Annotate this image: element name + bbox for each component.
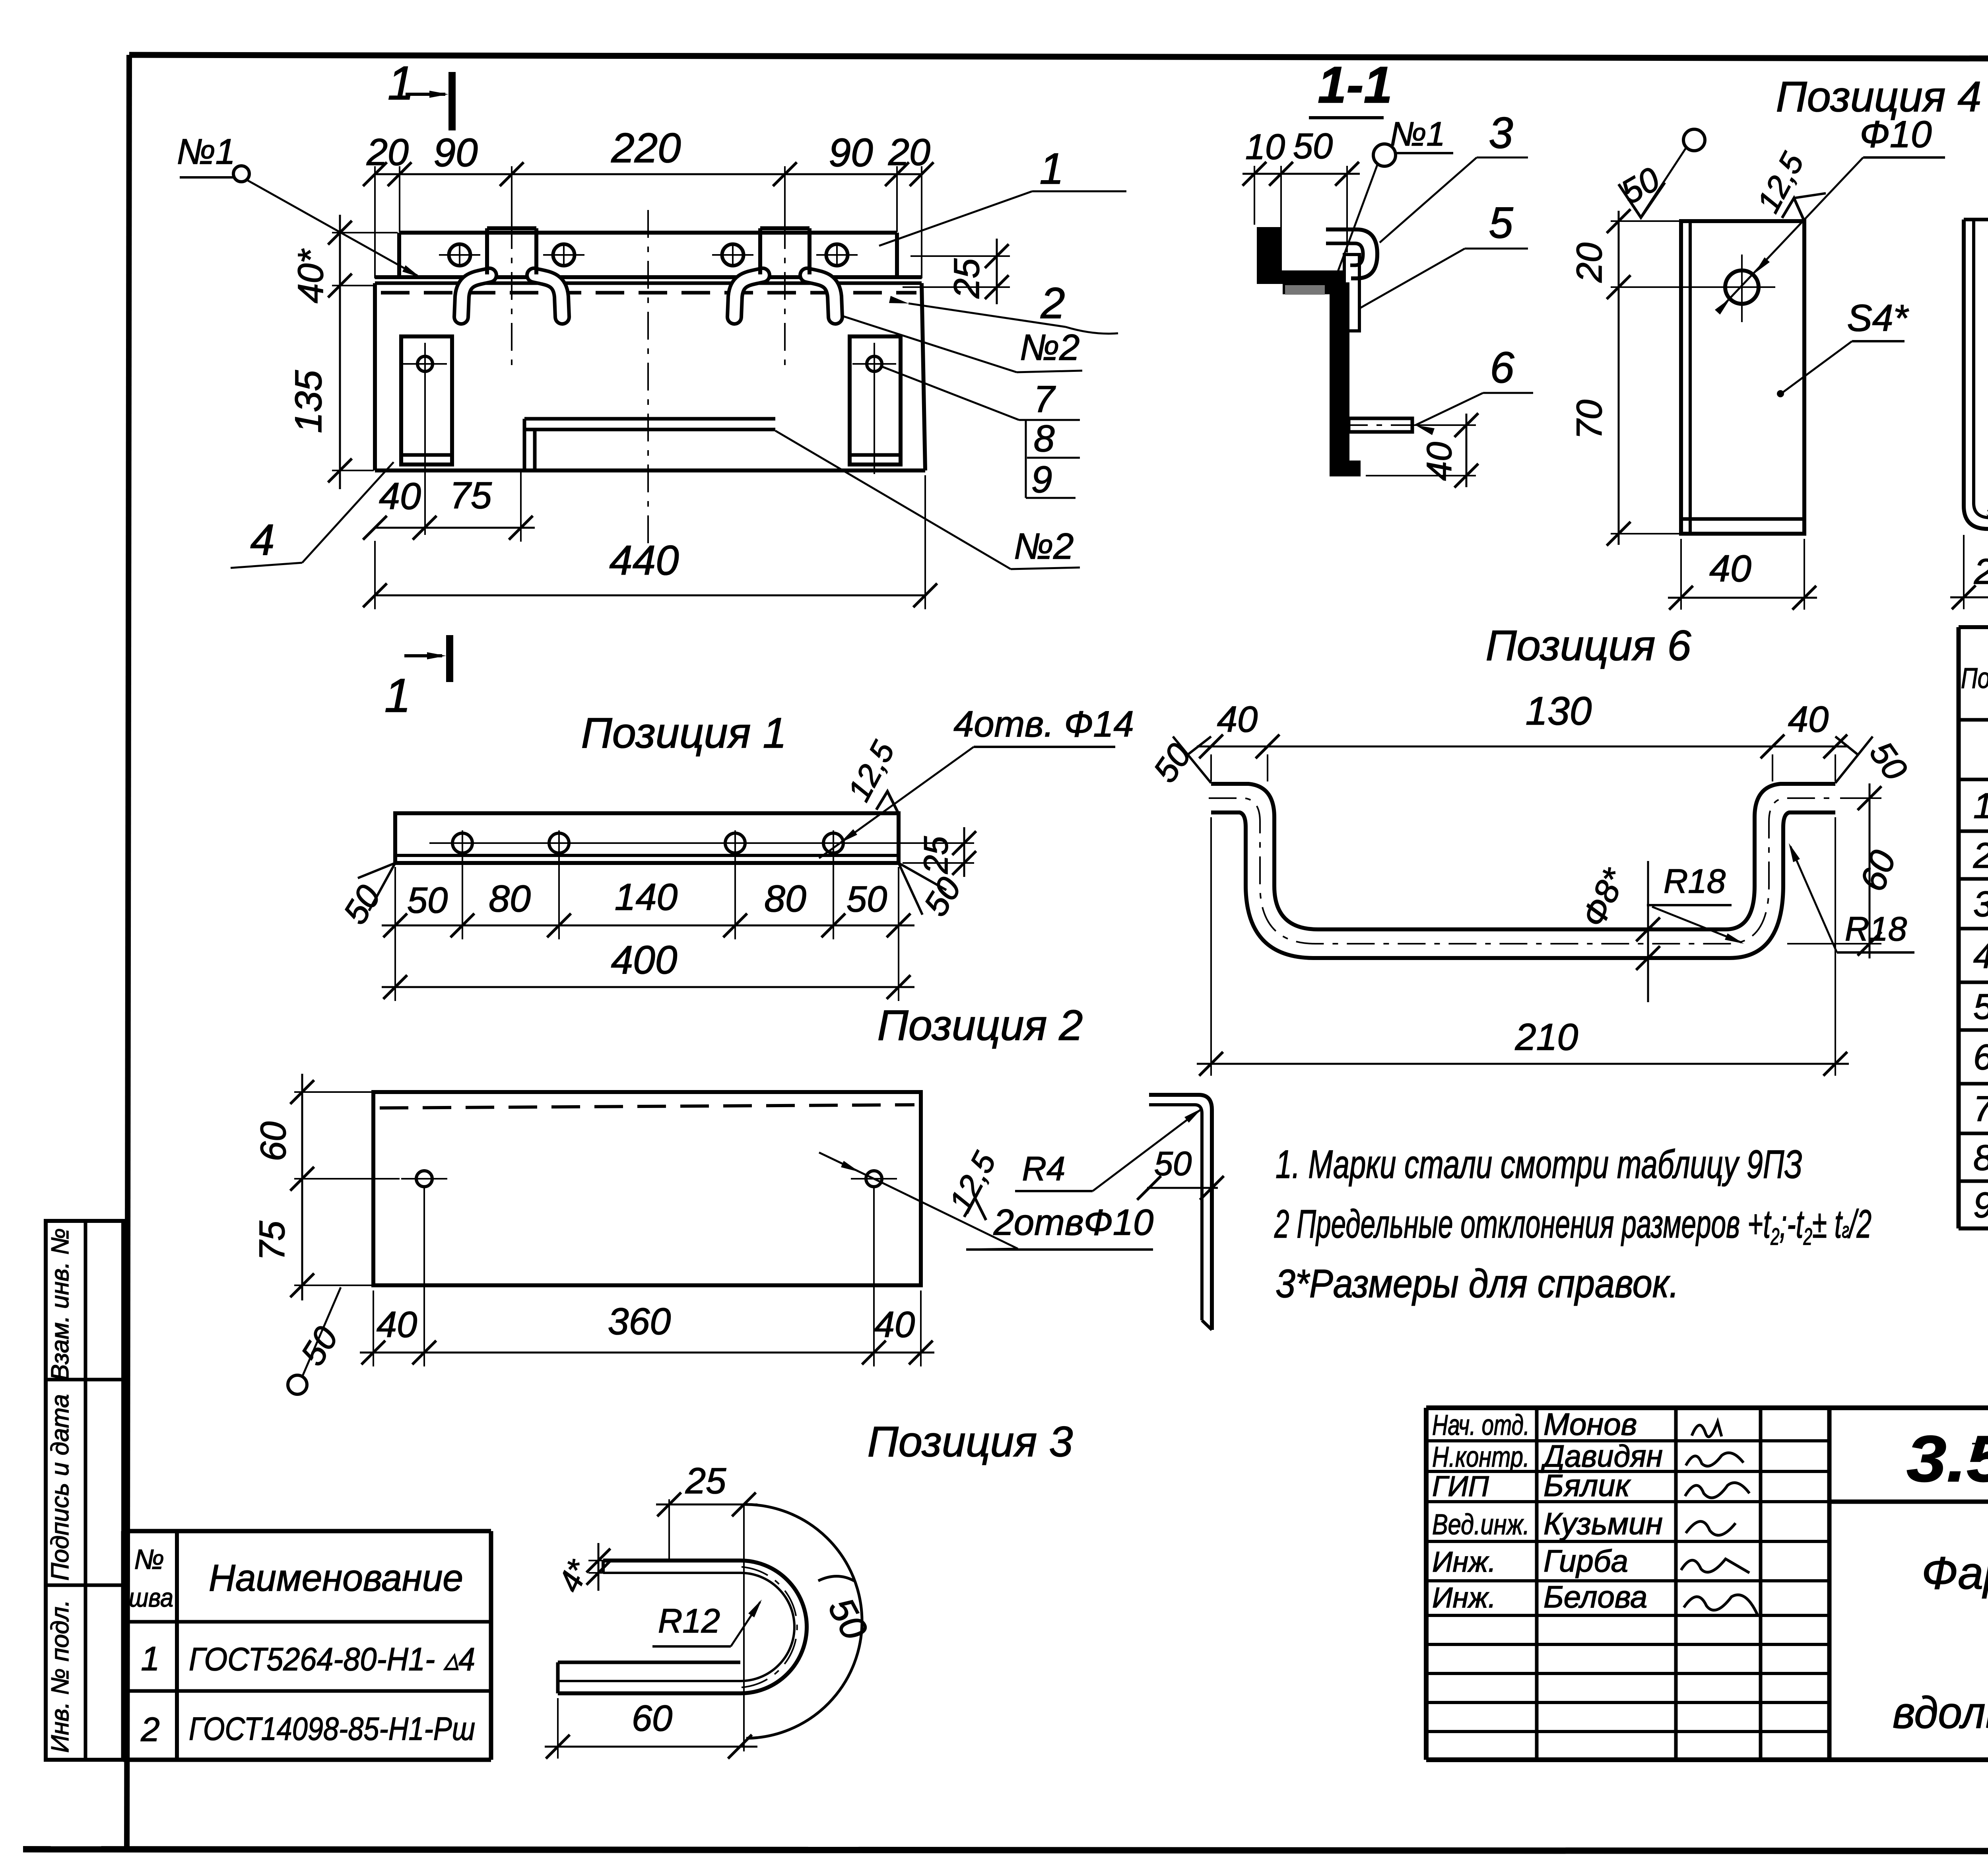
svg-text:50: 50 xyxy=(407,880,448,921)
svg-text:20: 20 xyxy=(1974,552,1988,592)
title block labels xyxy=(1893,1422,1988,1743)
svg-text:25: 25 xyxy=(685,1461,726,1501)
svg-text:7: 7 xyxy=(1973,1089,1988,1129)
svg-text:1. Марки стали смотри табли: 1. Марки стали смотри таблицу 9ПЗ xyxy=(1276,1142,1802,1187)
position 3 title xyxy=(868,1417,1073,1465)
dimension 440 xyxy=(363,475,937,609)
parts table xyxy=(1959,627,1988,1228)
svg-text:Наименование: Наименование xyxy=(209,1557,463,1599)
weld label N2 lower xyxy=(775,431,1080,569)
svg-text:75: 75 xyxy=(450,474,492,517)
position 4 side view plate xyxy=(1964,220,1988,529)
svg-text:вдоль моста: вдоль моста xyxy=(1893,1688,1988,1737)
svg-text:1: 1 xyxy=(1039,144,1064,193)
svg-text:10: 10 xyxy=(1245,127,1285,167)
svg-text:7: 7 xyxy=(1034,378,1056,420)
svg-text:Гирба: Гирба xyxy=(1543,1543,1628,1578)
left margin boxes xyxy=(46,1221,123,1760)
svg-text:80: 80 xyxy=(489,878,531,920)
svg-text:шва: шва xyxy=(129,1583,173,1612)
svg-text:360: 360 xyxy=(608,1300,671,1343)
svg-text:3: 3 xyxy=(1973,884,1988,924)
leader label 2 xyxy=(889,279,1118,334)
svg-text:40*: 40* xyxy=(291,248,331,303)
svg-text:40: 40 xyxy=(874,1304,915,1345)
angle pos.1 section filled xyxy=(1258,228,1342,283)
side plate centerlines xyxy=(425,343,874,535)
roughness 12,5 position 1 xyxy=(841,735,901,812)
title block signatures xyxy=(1681,1422,1757,1615)
roughness 12,5 position 4 xyxy=(1750,147,1826,221)
svg-text:70: 70 xyxy=(1570,400,1609,439)
position 1 angle bar top view xyxy=(395,813,899,863)
position 3 bent strip xyxy=(558,1561,807,1693)
svg-text:Фартук: Фартук xyxy=(1922,1548,1988,1599)
svg-text:Поз.: Поз. xyxy=(1961,663,1988,694)
svg-text:25: 25 xyxy=(947,258,987,299)
svg-text:40: 40 xyxy=(1709,548,1751,590)
sheet plate pos.2 front view xyxy=(375,283,925,470)
svg-text:Монов: Монов xyxy=(1543,1407,1637,1442)
weld flag 50 position 4 xyxy=(1615,129,1705,218)
position 1 title xyxy=(581,709,787,757)
side plate pos.4 right on main view xyxy=(850,336,901,464)
svg-text:2: 2 xyxy=(1973,836,1988,876)
position 2 side angle view xyxy=(1149,1095,1212,1330)
weld flag 50 left position 1 xyxy=(336,863,395,931)
dimension 40 75 xyxy=(363,471,535,542)
leader label 6 xyxy=(1415,343,1533,435)
svg-text:9: 9 xyxy=(1973,1186,1988,1225)
bent bar hook pos.5 on main view left xyxy=(439,221,584,372)
label S4* xyxy=(1778,297,1909,396)
svg-text:400: 400 xyxy=(611,938,678,982)
title block signature names xyxy=(1432,1407,1663,1614)
position 1 dimensions 50 80 140 80 50 400 xyxy=(382,855,914,1001)
svg-text:№: № xyxy=(134,1544,164,1575)
section mark 1 bottom xyxy=(384,635,450,722)
svg-text:Нач. отд.: Нач. отд. xyxy=(1432,1409,1530,1441)
svg-text:60: 60 xyxy=(254,1121,293,1161)
svg-text:Кузьмин: Кузьмин xyxy=(1543,1506,1663,1541)
label 4otv F14 xyxy=(819,704,1134,858)
svg-text:90: 90 xyxy=(829,130,873,175)
weld label N1 section xyxy=(1336,115,1453,294)
svg-text:9: 9 xyxy=(1031,459,1052,501)
svg-text:50: 50 xyxy=(846,879,887,919)
svg-text:20: 20 xyxy=(1570,243,1609,283)
svg-text:40: 40 xyxy=(1788,699,1829,740)
leader label 3 xyxy=(1380,109,1528,243)
weld flag 50 left position 6 xyxy=(1146,737,1211,789)
svg-text:5: 5 xyxy=(1973,987,1988,1027)
svg-text:R18: R18 xyxy=(1845,910,1907,948)
bent strip pos.3 in section xyxy=(1326,229,1377,278)
label R18 second position 6 xyxy=(1789,843,1914,952)
position 6 title xyxy=(1486,621,1692,669)
svg-text:ГИП: ГИП xyxy=(1432,1471,1489,1502)
weld flag 50 right position 1 xyxy=(899,863,969,923)
position 4 title xyxy=(1776,72,1982,120)
svg-text:130: 130 xyxy=(1526,689,1592,733)
svg-text:Инв. № подл.: Инв. № подл. xyxy=(47,1600,74,1753)
svg-text:135: 135 xyxy=(287,370,330,433)
svg-text:8: 8 xyxy=(1973,1138,1988,1178)
position 4 plate xyxy=(1681,221,1804,534)
angle bar pos.1 front view xyxy=(375,233,922,283)
leader labels 7 8 9 xyxy=(881,366,1080,501)
svg-text:75: 75 xyxy=(252,1220,292,1261)
svg-text:ГОСТ14098-85-Н1-Рш: ГОСТ14098-85-Н1-Рш xyxy=(189,1711,475,1747)
svg-text:4отв. Ф14: 4отв. Ф14 xyxy=(953,704,1134,744)
svg-text:Позиция 1: Позиция 1 xyxy=(581,709,787,757)
main view vertical centerline xyxy=(647,210,649,549)
svg-text:40: 40 xyxy=(379,475,421,517)
svg-text:S4*: S4* xyxy=(1847,297,1909,339)
roughness 12,5 position 2 xyxy=(942,1146,1003,1220)
svg-text:3*Размеры для справок.: 3*Размеры для справок. xyxy=(1276,1261,1679,1306)
svg-text:Бялик: Бялик xyxy=(1543,1468,1631,1503)
position 3 dimensions 25 50 4* 60 R12 xyxy=(545,1461,875,1759)
position 4 dimensions 20 70 40 xyxy=(1570,209,1817,610)
svg-text:Позиция 2: Позиция 2 xyxy=(878,1001,1083,1049)
sheet pos.2 section filled xyxy=(1283,283,1360,476)
svg-text:№2: №2 xyxy=(1014,526,1074,567)
section mark 1 top xyxy=(388,56,452,130)
dimension 40 section xyxy=(1366,413,1478,488)
svg-text:Подпись и дата: Подпись и дата xyxy=(47,1394,74,1581)
position 4 side dims 100 R4 20 xyxy=(1950,208,1988,609)
leader label 1 xyxy=(879,144,1126,246)
svg-text:Н.контр.: Н.контр. xyxy=(1432,1441,1530,1473)
side plate pos.4 left on main view xyxy=(401,336,452,464)
svg-text:Вед.инж.: Вед.инж. xyxy=(1432,1509,1530,1541)
svg-text:6: 6 xyxy=(1973,1038,1988,1077)
svg-text:Ф10: Ф10 xyxy=(1860,113,1932,155)
svg-text:Взам. инв. №: Взам. инв. № xyxy=(47,1228,74,1380)
svg-text:1: 1 xyxy=(384,669,411,722)
svg-text:60: 60 xyxy=(632,1698,672,1739)
dimension 25 angle height xyxy=(903,239,1010,304)
position 2 dimensions 60 75 40 360 40 xyxy=(252,1074,934,1366)
weld table xyxy=(123,1531,491,1760)
leader label 5 xyxy=(1360,198,1528,308)
rod pos.6 in section xyxy=(1340,418,1423,432)
weld label N2 upper xyxy=(843,316,1082,372)
svg-text:440: 440 xyxy=(609,537,679,584)
svg-text:8: 8 xyxy=(1034,418,1055,460)
svg-text:20: 20 xyxy=(888,131,930,173)
svg-text:Белова: Белова xyxy=(1543,1579,1647,1614)
dimension 20 90 220 90 20 xyxy=(363,125,934,278)
svg-text:R4: R4 xyxy=(1022,1150,1066,1188)
svg-text:1: 1 xyxy=(1973,786,1988,826)
svg-text:1: 1 xyxy=(388,56,414,110)
dimension 40* and 135 xyxy=(287,215,398,489)
svg-text:2 Предельные отклонения раз: 2 Предельные отклонения размеров +t2;-t2… xyxy=(1274,1202,1872,1250)
svg-text:2: 2 xyxy=(1040,279,1065,328)
position 2 side dim 50 xyxy=(1137,1145,1224,1200)
svg-text:Инж.: Инж. xyxy=(1432,1546,1496,1578)
svg-text:40: 40 xyxy=(377,1304,417,1345)
bar pos.5 behind angle in section xyxy=(1344,255,1359,331)
section 1-1 dimensions 10 50 xyxy=(1242,126,1360,278)
svg-text:20: 20 xyxy=(366,131,409,173)
label 2otv F10 xyxy=(819,1152,1153,1250)
position 6 bent rod channel xyxy=(1209,784,1838,958)
svg-text:50: 50 xyxy=(1293,126,1333,166)
svg-text:220: 220 xyxy=(611,125,681,171)
svg-text:R12: R12 xyxy=(658,1602,720,1640)
svg-text:Позиция 6: Позиция 6 xyxy=(1486,621,1692,669)
plate pos.4 edge in section xyxy=(1285,285,1325,295)
svg-text:90: 90 xyxy=(433,130,478,175)
svg-text:5: 5 xyxy=(1489,198,1513,247)
svg-text:1-1: 1-1 xyxy=(1318,56,1392,114)
bent bar hook pos.5 on main view right xyxy=(712,221,858,372)
svg-text:140: 140 xyxy=(615,876,678,918)
weld label N1 main view xyxy=(177,132,421,278)
label R4 position 2 xyxy=(1015,1108,1202,1191)
position 2 title xyxy=(878,1001,1083,1049)
label F10 hole xyxy=(1715,113,1945,315)
svg-text:№2: №2 xyxy=(1020,327,1080,368)
svg-text:40: 40 xyxy=(1419,442,1459,481)
position 6 dimensions 40 130 40 210 60 F8* xyxy=(1197,689,1904,1076)
svg-text:210: 210 xyxy=(1515,1016,1578,1058)
svg-text:№1: №1 xyxy=(177,132,235,172)
notes 1 2 3 xyxy=(1274,1142,1872,1306)
svg-text:50: 50 xyxy=(1154,1145,1192,1183)
section 1-1 title xyxy=(1309,56,1392,118)
svg-text:№1: №1 xyxy=(1390,115,1445,153)
svg-text:3: 3 xyxy=(1489,109,1513,157)
svg-text:40: 40 xyxy=(1217,699,1258,740)
svg-text:1: 1 xyxy=(141,1640,159,1678)
svg-text:80: 80 xyxy=(764,878,806,920)
svg-text:6: 6 xyxy=(1490,343,1514,392)
svg-text:2отвФ10: 2отвФ10 xyxy=(993,1202,1153,1243)
svg-text:Инж.: Инж. xyxy=(1432,1582,1496,1614)
weld flag 50 right position 6 xyxy=(1835,735,1914,787)
svg-text:3.501.1-165.1-3-93: 3.501.1-165.1-3-93 xyxy=(1906,1422,1988,1495)
weld flag 50 circle position 2 xyxy=(288,1287,346,1394)
svg-text:4: 4 xyxy=(1973,936,1988,976)
svg-text:4: 4 xyxy=(250,515,274,564)
svg-text:25: 25 xyxy=(917,836,955,874)
svg-text:ГОСТ5264-80-Н1- ▵4: ГОСТ5264-80-Н1- ▵4 xyxy=(189,1641,475,1677)
rod channel pos.6 front view xyxy=(524,419,775,470)
position 2 plate xyxy=(373,1092,921,1285)
svg-text:Позиция 3: Позиция 3 xyxy=(868,1417,1073,1465)
leader label 4 xyxy=(231,462,394,568)
svg-text:2: 2 xyxy=(140,1711,159,1749)
title block grid xyxy=(1426,1408,1988,1760)
label R18 first position 6 xyxy=(1647,863,1744,944)
position 1 dimension 25 xyxy=(847,827,976,877)
svg-text:R18: R18 xyxy=(1664,863,1726,900)
